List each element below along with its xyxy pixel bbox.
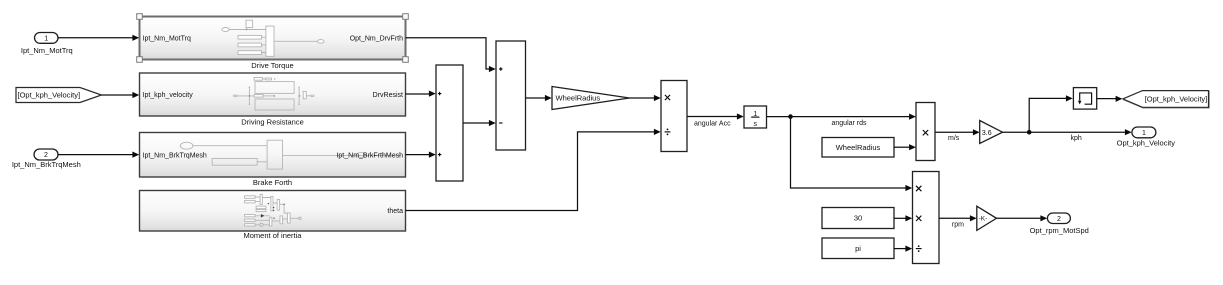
preview big rect top xyxy=(255,82,294,94)
selection handles xyxy=(137,14,409,63)
svg-text:Opt_Nm_DrvFrth: Opt_Nm_DrvFrth xyxy=(350,35,403,42)
preview oval xyxy=(180,142,193,149)
svg-text:WheelRadius: WheelRadius xyxy=(836,143,881,152)
svg-text:Ipt_Nm_BrkTrqMesh: Ipt_Nm_BrkTrqMesh xyxy=(12,160,81,169)
svg-text:pi: pi xyxy=(855,244,861,253)
wire gain 3.6 to outport 1, label kph xyxy=(1003,129,1132,142)
svg-text:1: 1 xyxy=(44,35,48,42)
wire Moment of inertia theta to Divide xyxy=(406,129,661,211)
constant pi xyxy=(822,238,894,259)
outport 2 Opt_rpm_MotSpd xyxy=(1030,213,1089,235)
subsystem Moment of inertia xyxy=(140,191,406,241)
subsystem Driving Resistance xyxy=(140,73,406,126)
preview wire xyxy=(229,29,266,31)
svg-text:theta: theta xyxy=(387,208,403,215)
gain -K- xyxy=(977,206,997,230)
svg-text:Ipt_kph_velocity: Ipt_kph_velocity xyxy=(143,92,194,99)
sum block Subtract xyxy=(496,41,526,150)
preview big rect bottom xyxy=(255,99,294,110)
preview out wire and oval xyxy=(274,40,318,42)
svg-text:Moment of inertia: Moment of inertia xyxy=(244,231,303,240)
preview wide rect xyxy=(212,159,257,166)
preview square block xyxy=(246,20,253,27)
svg-text:kph: kph xyxy=(1071,135,1082,142)
preview rect 2 xyxy=(238,43,262,47)
preview tiny oval left xyxy=(233,95,237,97)
wire Brake Forth to Add xyxy=(406,152,436,158)
wire constant pi to Product1 xyxy=(894,246,912,252)
wire gain WheelRadius to Divide xyxy=(630,95,661,101)
gain 3.6 xyxy=(980,121,1003,144)
svg-text:30: 30 xyxy=(854,214,862,223)
wire junction up to memory block xyxy=(1029,95,1073,132)
preview rect 1 xyxy=(238,35,262,39)
svg-text:[Opt_kph_Velocity]: [Opt_kph_Velocity] xyxy=(18,91,81,100)
wire Subtract to gain WheelRadius xyxy=(526,95,552,101)
memory block xyxy=(1073,88,1096,110)
svg-text:-K-: -K- xyxy=(979,216,988,223)
svg-text:Ipt_Nm_MotTrq: Ipt_Nm_MotTrq xyxy=(143,35,191,42)
preview out wire xyxy=(283,154,402,156)
preview tall rect xyxy=(266,26,274,56)
svg-text:Ipt_Nm_BrkTrqMesh: Ipt_Nm_BrkTrqMesh xyxy=(143,152,207,159)
svg-text:s: s xyxy=(754,121,758,128)
svg-text:m/s: m/s xyxy=(948,135,960,142)
from tag [Opt_kph_Velocity] xyxy=(16,88,102,103)
integrator 1/s xyxy=(744,106,767,128)
product Product1 (rpm) xyxy=(913,172,940,264)
svg-text:Drive Torque: Drive Torque xyxy=(251,61,293,70)
constant 30 xyxy=(822,208,894,229)
product Product (rds x radius) xyxy=(916,103,935,161)
svg-text:Brake Forth: Brake Forth xyxy=(253,178,292,187)
preview right small vrect and oval xyxy=(303,91,306,99)
junction node after gain 3.6 xyxy=(1027,130,1032,135)
wire from-tag to Driving Resistance xyxy=(102,92,140,98)
junction node after integrator xyxy=(788,114,793,119)
product Divide (torque/inertia) xyxy=(661,81,687,152)
preview junction xyxy=(246,29,248,31)
wire Divide to Integrator, label angular Acc xyxy=(687,113,744,127)
svg-text:DrvResist: DrvResist xyxy=(373,92,403,99)
wire Add to Subtract xyxy=(463,120,496,126)
outport 1 Opt_kph_Velocity xyxy=(1117,127,1176,147)
wire memory to goto tag xyxy=(1097,96,1123,102)
subsystem Brake Forth xyxy=(140,133,406,187)
wire Driving Resistance to Add xyxy=(406,91,436,97)
svg-text:Opt_rpm_MotSpd: Opt_rpm_MotSpd xyxy=(1030,226,1089,235)
goto tag [Opt_kph_Velocity] xyxy=(1123,91,1210,109)
constant WheelRadius xyxy=(822,138,894,158)
svg-text:[Opt_kph_Velocity]: [Opt_kph_Velocity] xyxy=(1145,95,1208,104)
svg-text:3.6: 3.6 xyxy=(982,130,992,137)
svg-text:rpm: rpm xyxy=(952,221,964,228)
inport 2 Ipt_Nm_BrkTrqMesh xyxy=(12,149,81,169)
wire constant 30 to Product1 xyxy=(894,215,912,221)
wire inport1 to Drive Torque xyxy=(58,35,139,41)
preview small rect mid xyxy=(254,95,263,98)
sum block Add (resistances) xyxy=(436,65,463,181)
wire constant WheelRadius to Product xyxy=(894,144,916,150)
wire gain -K- to outport 2 xyxy=(997,215,1048,221)
svg-text:Opt_kph_Velocity: Opt_kph_Velocity xyxy=(1117,138,1176,147)
preview: input oval xyxy=(222,28,229,32)
preview vertical left line xyxy=(248,87,250,104)
wire Product1 to gain -K-, label rpm xyxy=(939,215,977,228)
preview dark gain triangle xyxy=(261,214,265,218)
svg-text:Driving Resistance: Driving Resistance xyxy=(241,117,304,126)
wire Drive Torque to Subtract xyxy=(406,38,496,72)
svg-text:Ipt_Nm_BrkFrthMesh: Ipt_Nm_BrkFrthMesh xyxy=(336,152,403,159)
svg-text:2: 2 xyxy=(1057,216,1061,223)
svg-text:angular Acc: angular Acc xyxy=(694,121,731,128)
preview cluster xyxy=(245,196,256,199)
gain WheelRadius xyxy=(552,87,630,110)
wire junction down to Product rpm xyxy=(791,117,913,192)
svg-text:1: 1 xyxy=(1142,130,1146,137)
svg-text:WheelRadius: WheelRadius xyxy=(556,94,601,103)
svg-text:angular rds: angular rds xyxy=(832,120,868,127)
subsystem Drive Torque (selected) xyxy=(137,14,409,70)
preview rect 3 xyxy=(238,51,262,55)
svg-text:Ipt_Nm_MotTrq: Ipt_Nm_MotTrq xyxy=(21,46,73,55)
preview tall rect xyxy=(267,140,282,169)
inport 1 Ipt_Nm_MotTrq xyxy=(21,33,73,56)
preview vertical right line xyxy=(298,87,300,104)
wire Product to gain 3.6, label m/s xyxy=(935,129,980,142)
preview small rects top xyxy=(254,78,262,81)
svg-text:2: 2 xyxy=(44,152,48,159)
wire Integrator to Product (m/s), label angular rds xyxy=(767,114,916,128)
wire inport2 to Brake Forth xyxy=(58,152,139,158)
